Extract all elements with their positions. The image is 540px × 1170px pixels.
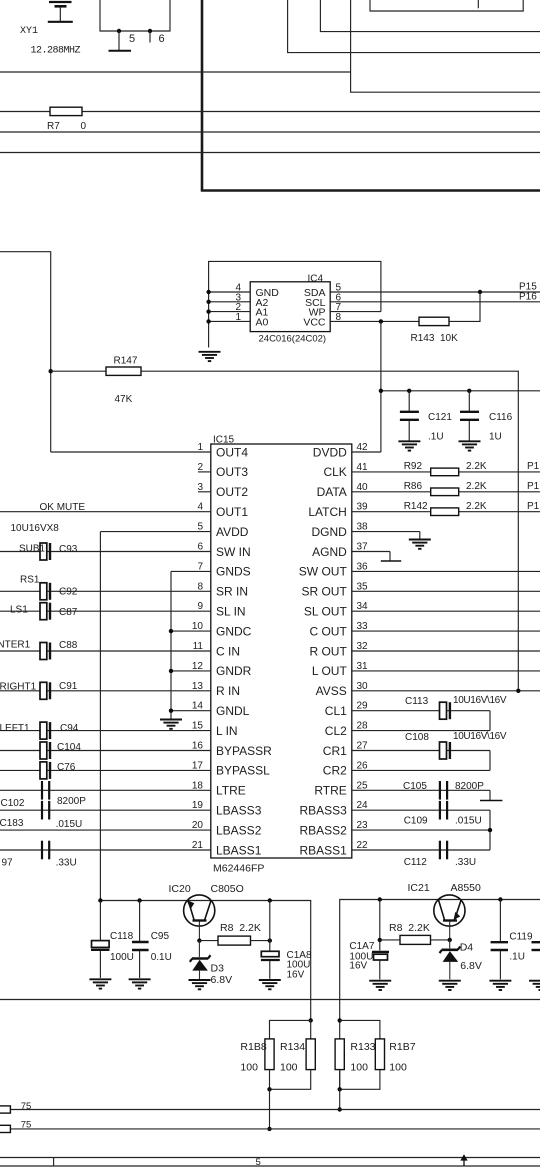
IC15 pin 2 OUT3 bbox=[197, 462, 248, 479]
IC15 pin 24 RBASS3 bbox=[299, 800, 490, 817]
IC15 pin 8 SR IN bbox=[0, 581, 248, 598]
node net H junction bbox=[267, 1127, 271, 1131]
node right bracket junction bbox=[338, 1018, 342, 1022]
node RBASS2 junction bbox=[488, 828, 492, 832]
node VCC junction bbox=[379, 319, 383, 323]
svg-text:A0: A0 bbox=[256, 316, 269, 328]
svg-text:DVDD: DVDD bbox=[313, 445, 347, 459]
resistor R92 bbox=[431, 468, 459, 476]
wire R7 net bbox=[0, 111, 540, 113]
node pin6 junction bbox=[148, 29, 152, 33]
zone arrow bbox=[460, 1154, 467, 1166]
svg-text:OUT3: OUT3 bbox=[216, 465, 248, 479]
node rail C1A8 junction bbox=[268, 898, 272, 902]
svg-text:C116: C116 bbox=[489, 412, 513, 423]
resistor R134 bbox=[306, 1039, 315, 1070]
svg-text:C104: C104 bbox=[57, 742, 81, 753]
svg-text:D4: D4 bbox=[460, 942, 474, 954]
IC15 pin 37 AGND bbox=[312, 542, 390, 559]
border line lower bbox=[0, 1165, 540, 1167]
capacitor C87 bbox=[40, 603, 50, 620]
IC15 pin 16 BYPASSR bbox=[0, 741, 272, 758]
IC4 pin 4 GND bbox=[206, 283, 279, 300]
node R8 C1A8 junction bbox=[268, 938, 272, 942]
resistor R86 bbox=[431, 488, 459, 496]
capacitor C118 bbox=[91, 901, 110, 979]
svg-text:R1B7: R1B7 bbox=[389, 1041, 415, 1053]
capacitor C1A7 bbox=[372, 952, 389, 980]
svg-text:BYPASSL: BYPASSL bbox=[216, 764, 270, 778]
wire bracket R1B8 R134 top bbox=[270, 1020, 311, 1039]
node R8 C1A7 junction bbox=[378, 938, 382, 942]
svg-text:OUT4: OUT4 bbox=[216, 445, 248, 459]
svg-text:AVSS: AVSS bbox=[316, 684, 347, 698]
IC15 pin 32 R OUT bbox=[309, 641, 540, 658]
svg-text:C119: C119 bbox=[509, 932, 533, 943]
svg-text:CR1: CR1 bbox=[323, 744, 347, 758]
wire horizontal net F bbox=[0, 999, 540, 1001]
svg-text:SR OUT: SR OUT bbox=[301, 585, 347, 599]
svg-text:33: 33 bbox=[357, 621, 369, 632]
svg-text:XY1: XY1 bbox=[20, 26, 38, 37]
svg-text:P1: P1 bbox=[527, 481, 540, 492]
node rail C95 junction bbox=[137, 898, 141, 902]
IC15 pin 34 SL OUT bbox=[304, 601, 540, 618]
svg-text:0.1U: 0.1U bbox=[151, 952, 172, 963]
resistor R7 bbox=[50, 107, 82, 115]
svg-text:C88: C88 bbox=[59, 640, 78, 651]
svg-text:LEFT1: LEFT1 bbox=[0, 723, 30, 734]
wire R8 right to vertical bbox=[380, 939, 400, 941]
svg-text:R7: R7 bbox=[47, 121, 60, 132]
svg-text:16V: 16V bbox=[349, 961, 367, 972]
svg-text:34: 34 bbox=[357, 601, 369, 612]
transistor IC20 bbox=[184, 895, 215, 941]
svg-text:RBASS3: RBASS3 bbox=[299, 804, 347, 818]
svg-text:LBASS3: LBASS3 bbox=[216, 804, 262, 818]
IC15 pin 6 SW IN bbox=[0, 542, 251, 559]
svg-text:R92: R92 bbox=[404, 461, 423, 472]
IC15 pin 41 CLK bbox=[323, 462, 540, 479]
svg-text:.015U: .015U bbox=[455, 815, 482, 826]
svg-text:L OUT: L OUT bbox=[312, 664, 348, 678]
IC15 pin 9 SL IN bbox=[0, 601, 246, 618]
IC15 pin 11 C IN bbox=[0, 641, 240, 658]
ground D4 bbox=[439, 981, 461, 990]
svg-text:C91: C91 bbox=[59, 681, 78, 692]
IC15 pin 5 AVDD bbox=[100, 522, 248, 539]
svg-text:LTRE: LTRE bbox=[216, 784, 246, 798]
wire R8 right to base bbox=[431, 939, 450, 941]
capacitor C113 bbox=[440, 702, 450, 719]
svg-text:2.2K: 2.2K bbox=[466, 501, 487, 512]
wire base to R8 bbox=[199, 940, 218, 942]
svg-text:C93: C93 bbox=[59, 544, 78, 555]
wire VCC vertical to DVDD bbox=[380, 321, 382, 452]
svg-text:GNDS: GNDS bbox=[216, 565, 251, 579]
svg-text:LS1: LS1 bbox=[10, 605, 28, 616]
IC15 pin 27 CR1 bbox=[323, 741, 490, 758]
zener diode D4 bbox=[440, 940, 461, 980]
svg-text:SUB1: SUB1 bbox=[19, 544, 46, 555]
svg-text:DGND: DGND bbox=[311, 525, 347, 539]
node left bracket junction bbox=[309, 1018, 313, 1022]
svg-text:6: 6 bbox=[197, 542, 203, 553]
svg-text:R IN: R IN bbox=[216, 684, 240, 698]
IC15 pin 26 CR2 bbox=[323, 760, 490, 777]
wire left rail AVDD bbox=[100, 901, 310, 1021]
svg-text:C87: C87 bbox=[59, 607, 78, 618]
svg-text:10U16V\16V: 10U16V\16V bbox=[453, 695, 507, 706]
svg-text:R143 10K: R143 10K bbox=[411, 333, 459, 344]
resistor R1B8 bbox=[265, 1039, 274, 1070]
IC15 pin 1 OUT4 bbox=[51, 442, 249, 459]
svg-text:R142: R142 bbox=[404, 501, 428, 512]
ground C118 bbox=[89, 979, 111, 988]
ground C95 bbox=[129, 979, 151, 988]
svg-text:AVDD: AVDD bbox=[216, 525, 249, 539]
svg-text:20: 20 bbox=[192, 820, 204, 831]
wire AVDD vertical bbox=[99, 532, 101, 901]
svg-text:36: 36 bbox=[357, 561, 369, 572]
svg-text:RBASS1: RBASS1 bbox=[299, 843, 347, 857]
svg-text:35: 35 bbox=[357, 581, 369, 592]
svg-text:AGND: AGND bbox=[312, 545, 347, 559]
capacitor at crystal XY1 bbox=[48, 2, 73, 22]
IC15 pin 4 OUT1 bbox=[0, 502, 248, 519]
capacitor C183 bbox=[42, 801, 49, 820]
svg-text:C105: C105 bbox=[403, 781, 427, 792]
wire GND bus left bbox=[170, 571, 172, 718]
svg-text:2: 2 bbox=[197, 462, 203, 473]
svg-text:R133: R133 bbox=[350, 1041, 375, 1053]
node R147 left junction bbox=[49, 369, 53, 373]
svg-text:BYPASSR: BYPASSR bbox=[216, 744, 272, 758]
svg-text:28: 28 bbox=[357, 721, 369, 732]
node SDA R143 junction bbox=[478, 290, 482, 294]
op-amp IC4 box bbox=[250, 282, 330, 332]
node C121 junction bbox=[407, 389, 411, 393]
svg-text:SL IN: SL IN bbox=[216, 605, 246, 619]
resistor R147 bbox=[106, 367, 141, 375]
IC15 pin 14 GNDL bbox=[171, 701, 250, 718]
svg-text:C109: C109 bbox=[404, 815, 428, 826]
wire net E bbox=[0, 152, 540, 154]
svg-text:RTRE: RTRE bbox=[314, 784, 346, 798]
ground C1A8 bbox=[259, 980, 281, 989]
node VCC rail junction bbox=[379, 389, 383, 393]
wire right rail bbox=[340, 900, 540, 1090]
svg-text:R134: R134 bbox=[280, 1041, 305, 1053]
wire net G bbox=[0, 1109, 540, 1111]
svg-text:3: 3 bbox=[197, 482, 203, 493]
wire left net corner bbox=[0, 252, 51, 452]
IC15 pin 22 RBASS1 bbox=[299, 840, 490, 857]
IC box top right bbox=[370, 0, 523, 11]
resistor R8 left bbox=[218, 936, 251, 945]
svg-text:SW OUT: SW OUT bbox=[299, 565, 348, 579]
svg-text:IC21: IC21 bbox=[408, 882, 430, 894]
svg-text:75: 75 bbox=[21, 1101, 32, 1112]
capacitor C105 bbox=[440, 781, 447, 800]
svg-text:15: 15 bbox=[192, 721, 204, 732]
svg-text:LBASS1: LBASS1 bbox=[216, 843, 262, 857]
svg-text:5: 5 bbox=[129, 33, 135, 45]
svg-text:C113: C113 bbox=[405, 696, 429, 707]
svg-text:IC15: IC15 bbox=[213, 435, 235, 446]
capacitor C88 bbox=[40, 643, 50, 660]
resistor R1B7 bbox=[375, 1039, 384, 1070]
svg-text:L IN: L IN bbox=[216, 724, 238, 738]
IC15 pin 15 L IN bbox=[0, 721, 238, 738]
svg-text:8: 8 bbox=[336, 312, 342, 323]
wire right drop to net G bbox=[339, 1089, 341, 1109]
node rail C119 junction bbox=[498, 897, 502, 901]
IC4 pin 1 A0 bbox=[206, 312, 268, 329]
IC15 pin 33 C OUT bbox=[309, 621, 540, 638]
wire pin6 stub bbox=[149, 31, 151, 43]
svg-text:LATCH: LATCH bbox=[308, 505, 346, 519]
svg-text:RBASS2: RBASS2 bbox=[299, 823, 347, 837]
svg-text:.33U: .33U bbox=[56, 858, 77, 869]
ground RTRE termination bbox=[480, 790, 502, 800]
svg-text:75: 75 bbox=[21, 1120, 32, 1131]
capacitor C109 bbox=[440, 801, 447, 820]
wire net A step bbox=[351, 0, 540, 92]
svg-text:GNDL: GNDL bbox=[216, 704, 250, 718]
capacitor C97 bbox=[42, 841, 49, 860]
svg-text:22: 22 bbox=[357, 840, 369, 851]
capacitor C92 bbox=[40, 583, 50, 600]
IC15 pin 19 LBASS3 bbox=[0, 800, 262, 817]
thick bus line horizontal bbox=[201, 189, 540, 192]
svg-text:CL1: CL1 bbox=[325, 704, 347, 718]
capacitor C104 bbox=[40, 742, 50, 759]
svg-text:13: 13 bbox=[192, 681, 204, 692]
border line upper bbox=[0, 1157, 540, 1159]
svg-text:C108: C108 bbox=[405, 732, 429, 743]
svg-text:1: 1 bbox=[197, 442, 203, 453]
IC15 pin 21 LBASS1 bbox=[0, 840, 262, 857]
svg-text:CR2: CR2 bbox=[323, 764, 347, 778]
wire bracket R133 R1B7 top bbox=[340, 1020, 380, 1039]
wire net C step bbox=[320, 0, 540, 32]
svg-text:P16: P16 bbox=[519, 292, 537, 303]
svg-text:23: 23 bbox=[357, 820, 369, 831]
svg-text:14: 14 bbox=[192, 701, 204, 712]
wire ground loop around IC4 bbox=[209, 261, 381, 347]
capacitor C121 bbox=[400, 391, 419, 441]
ground IC4 bbox=[199, 352, 221, 361]
pin lead top right IC bbox=[477, 0, 479, 8]
svg-text:P1: P1 bbox=[527, 501, 540, 512]
thick bus line vertical bbox=[201, 0, 204, 191]
IC15 pin 20 LBASS2 bbox=[0, 820, 262, 837]
resistor 75 upper bbox=[0, 1106, 10, 1113]
node right bracket bottom junction bbox=[338, 1087, 342, 1091]
svg-text:1U: 1U bbox=[489, 432, 502, 443]
IC15 pin 29 CL1 bbox=[325, 701, 490, 718]
svg-text:16: 16 bbox=[192, 741, 204, 752]
capacitor C112 bbox=[440, 841, 447, 860]
svg-text:C92: C92 bbox=[59, 587, 78, 598]
capacitor C94 bbox=[40, 722, 50, 739]
svg-text:CL2: CL2 bbox=[325, 724, 347, 738]
svg-text:0: 0 bbox=[81, 121, 87, 132]
svg-text:R86: R86 bbox=[404, 481, 423, 492]
resistor R133 bbox=[335, 1039, 344, 1070]
svg-text:OUT2: OUT2 bbox=[216, 485, 248, 499]
svg-text:2.2K: 2.2K bbox=[466, 461, 487, 472]
svg-text:OUT1: OUT1 bbox=[216, 505, 248, 519]
svg-text:RIGHT1: RIGHT1 bbox=[0, 682, 37, 693]
ground DGND pin38 bbox=[409, 532, 431, 549]
capacitor C91 bbox=[40, 682, 50, 699]
node base D4 junction bbox=[448, 938, 452, 942]
ground pin5 bbox=[109, 50, 132, 52]
ground left bus bbox=[160, 720, 182, 729]
svg-text:19: 19 bbox=[192, 800, 204, 811]
capacitor C119 bbox=[491, 900, 508, 980]
svg-text:2.2K: 2.2K bbox=[466, 481, 487, 492]
svg-text:A8550: A8550 bbox=[451, 882, 482, 894]
svg-text:D3: D3 bbox=[211, 962, 225, 974]
svg-text:39: 39 bbox=[357, 502, 369, 513]
svg-text:8200P: 8200P bbox=[455, 781, 484, 792]
wire net H bbox=[0, 1128, 540, 1130]
IC15 pin 3 OUT2 bbox=[197, 482, 248, 499]
svg-text:16V: 16V bbox=[287, 970, 305, 981]
svg-text:38: 38 bbox=[357, 522, 369, 533]
wire R143 to SDA bbox=[449, 292, 480, 321]
svg-text:12.288MHZ: 12.288MHZ bbox=[31, 46, 81, 57]
svg-text:9: 9 bbox=[197, 601, 203, 612]
svg-text:18: 18 bbox=[192, 780, 204, 791]
svg-text:30: 30 bbox=[357, 681, 369, 692]
svg-text:11: 11 bbox=[193, 641, 204, 652]
svg-text:26: 26 bbox=[357, 760, 369, 771]
svg-text:.015U: .015U bbox=[56, 819, 83, 830]
resistor R143 bbox=[419, 317, 449, 325]
svg-text:RS1: RS1 bbox=[20, 575, 40, 586]
svg-text:5: 5 bbox=[197, 522, 203, 533]
svg-text:C112: C112 bbox=[404, 857, 428, 868]
svg-text:32: 32 bbox=[357, 641, 369, 652]
svg-text:GNDR: GNDR bbox=[216, 664, 252, 678]
capacitor C76 bbox=[40, 762, 50, 779]
node rail C1A7 junction bbox=[378, 897, 382, 901]
zener diode D3 bbox=[190, 941, 211, 979]
svg-text:IC4: IC4 bbox=[308, 274, 324, 285]
svg-text:DATA: DATA bbox=[317, 485, 347, 499]
capacitor C116 bbox=[460, 391, 479, 441]
svg-text:C76: C76 bbox=[57, 762, 76, 773]
svg-text:8: 8 bbox=[197, 581, 203, 592]
svg-text:6.8V: 6.8V bbox=[460, 960, 482, 972]
capacitor C95 bbox=[132, 901, 149, 979]
resistor 75 lower bbox=[0, 1125, 10, 1132]
svg-text:100: 100 bbox=[280, 1062, 298, 1074]
svg-text:R8 2.2K: R8 2.2K bbox=[220, 922, 261, 934]
svg-text:.1U: .1U bbox=[509, 952, 525, 963]
svg-text:37: 37 bbox=[357, 542, 369, 553]
IC15 pin 25 RTRE bbox=[314, 780, 490, 797]
ground C1A7 bbox=[369, 981, 391, 990]
IC4 pin 7 WP bbox=[309, 302, 381, 319]
svg-text:100U: 100U bbox=[110, 952, 134, 963]
svg-text:25: 25 bbox=[357, 780, 369, 791]
svg-text:SW IN: SW IN bbox=[216, 545, 251, 559]
svg-text:C121: C121 bbox=[428, 412, 452, 423]
IC15 pin 30 AVSS bbox=[316, 681, 540, 698]
svg-text:12: 12 bbox=[192, 661, 204, 672]
ground AGND pin37 bbox=[381, 552, 401, 562]
svg-text:IC20: IC20 bbox=[169, 883, 191, 895]
svg-text:40: 40 bbox=[357, 482, 369, 493]
wire R147 net bbox=[51, 371, 519, 691]
wire bracket R133 R1B7 bottom bbox=[340, 1070, 380, 1090]
resistor R8 right bbox=[400, 935, 431, 944]
svg-text:OK MUTE: OK MUTE bbox=[40, 502, 86, 513]
IC4 pin 2 A1 bbox=[206, 302, 268, 319]
svg-text:CENTER1: CENTER1 bbox=[0, 640, 31, 651]
svg-text:41: 41 bbox=[357, 462, 369, 473]
svg-text:M62446FP: M62446FP bbox=[213, 863, 264, 875]
IC15 pin 12 GNDR bbox=[171, 661, 252, 678]
svg-text:10U16VX8: 10U16VX8 bbox=[11, 523, 60, 534]
svg-text:C118: C118 bbox=[110, 931, 134, 942]
svg-text:27: 27 bbox=[357, 741, 369, 752]
node base R8 D3 junction bbox=[197, 938, 201, 942]
ground C116 bbox=[459, 441, 481, 450]
node pin5 junction bbox=[117, 29, 121, 33]
svg-text:47K: 47K bbox=[115, 394, 133, 405]
ground C119 bbox=[489, 981, 511, 990]
svg-text:29: 29 bbox=[357, 701, 369, 712]
node left bracket bottom junction bbox=[267, 1087, 271, 1091]
wire C1A7 vertical bbox=[379, 900, 381, 951]
node GNDL junction bbox=[169, 709, 173, 713]
border divider bbox=[53, 1158, 55, 1167]
svg-text:C183: C183 bbox=[0, 818, 24, 829]
wire net B step bbox=[288, 0, 540, 53]
IC15 pin 17 BYPASSL bbox=[0, 760, 270, 777]
svg-text:R147: R147 bbox=[114, 356, 138, 367]
capacitor at right edge bbox=[529, 942, 540, 990]
ground D3 bbox=[189, 980, 211, 989]
svg-text:4: 4 bbox=[197, 502, 203, 513]
IC15 pin 38 DGND bbox=[311, 522, 419, 539]
svg-text:7: 7 bbox=[197, 561, 203, 572]
wire net A upper left bbox=[0, 71, 351, 73]
capacitor C1A8 bbox=[261, 901, 280, 979]
wire crystal pins box bbox=[100, 0, 170, 31]
svg-text:P1: P1 bbox=[527, 461, 540, 472]
wire net D bbox=[0, 131, 540, 133]
svg-text:C102: C102 bbox=[1, 798, 25, 809]
wire bracket R1B8 R134 bottom bbox=[270, 1070, 311, 1090]
capacitor C102 bbox=[42, 781, 49, 800]
wire left drop to net H bbox=[269, 1089, 271, 1129]
IC15 pin 10 GNDC bbox=[171, 621, 252, 638]
svg-text:.33U: .33U bbox=[455, 857, 476, 868]
svg-text:42: 42 bbox=[357, 442, 369, 453]
svg-text:6.8V: 6.8V bbox=[211, 974, 233, 986]
wire pin5 stub to ground bbox=[118, 31, 120, 50]
svg-text:1: 1 bbox=[235, 312, 241, 323]
svg-text:C805O: C805O bbox=[211, 883, 244, 895]
capacitor C108 bbox=[440, 742, 450, 759]
